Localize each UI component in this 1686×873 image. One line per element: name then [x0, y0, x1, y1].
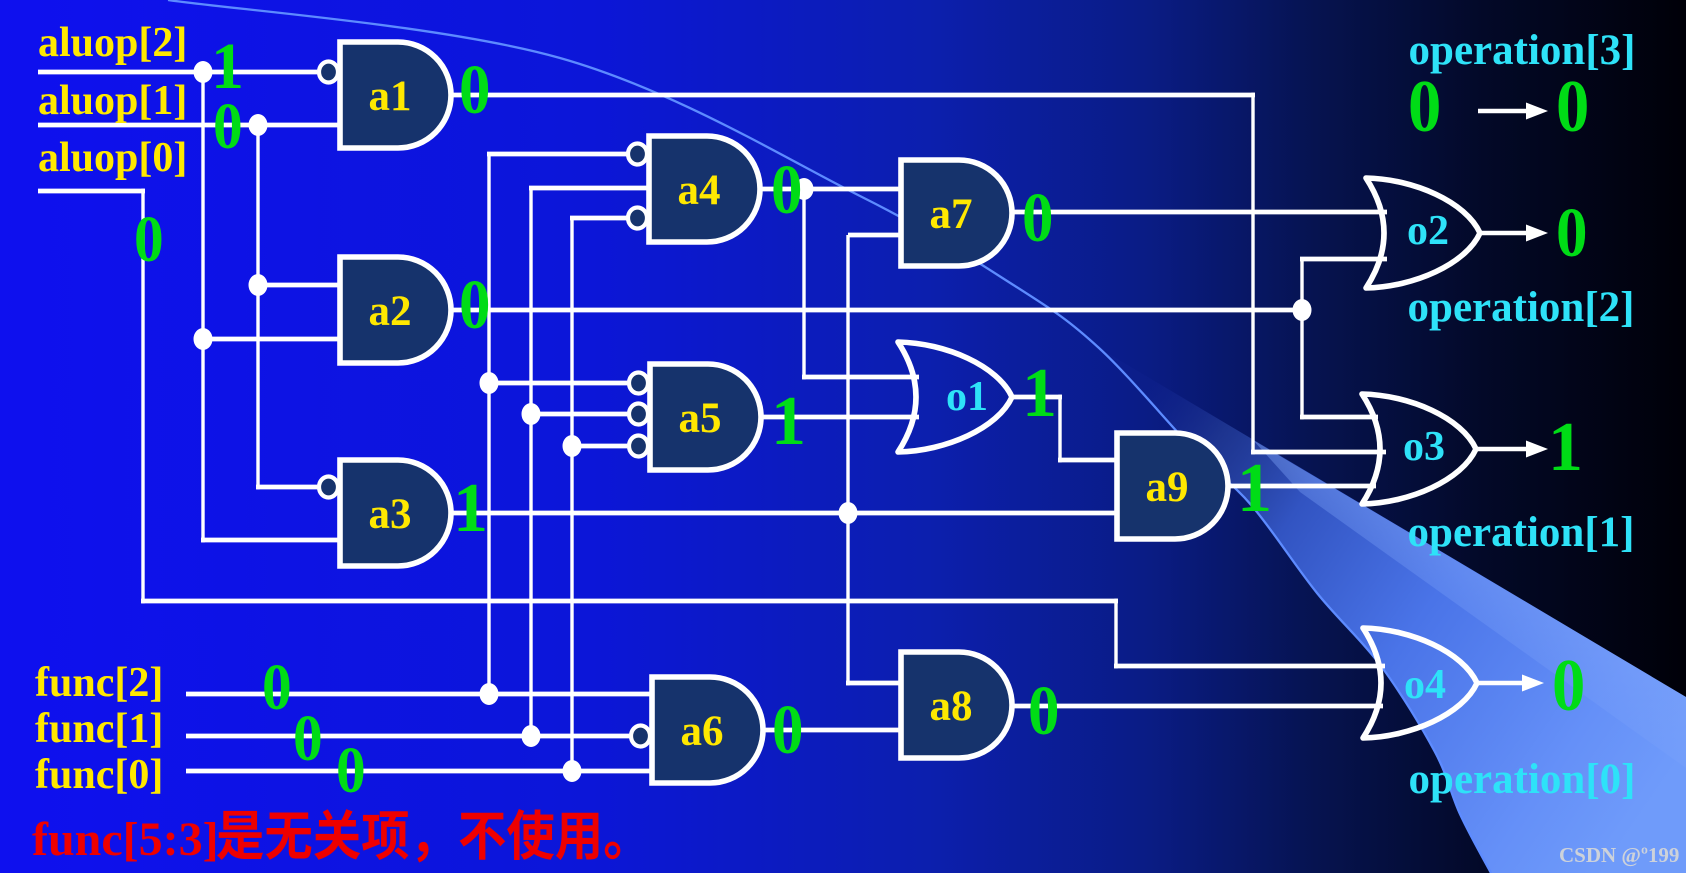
- inverter bubble a1 input: [319, 62, 338, 83]
- svg-text:0: 0: [293, 701, 323, 775]
- inverter bubble a5 input func[2]: [629, 373, 648, 394]
- wire aluop[2] input: [38, 70, 317, 75]
- inverter bubble a3 input: [319, 477, 338, 498]
- and-gate a7: [901, 160, 1012, 266]
- svg-text:1: 1: [453, 470, 488, 547]
- svg-text:0: 0: [459, 267, 491, 344]
- or-gate o3: [1362, 394, 1476, 504]
- output arrow operation[2]: [1480, 225, 1548, 242]
- svg-text:func[1]: func[1]: [35, 706, 163, 752]
- svg-text:1: 1: [1548, 409, 1583, 486]
- svg-text:a7: a7: [930, 191, 973, 238]
- wire func[0] input: [186, 769, 654, 774]
- svg-text:1: 1: [771, 383, 806, 460]
- wire a1 output to o3: [453, 93, 1386, 455]
- wire o1 output to a9: [1012, 395, 1117, 463]
- wire aluop[2] branch to a2: [203, 337, 340, 342]
- svg-text:o3: o3: [1403, 424, 1445, 470]
- junction a4 output node: [795, 178, 814, 200]
- svg-text:aluop[1]: aluop[1]: [38, 78, 187, 124]
- svg-text:0: 0: [771, 152, 803, 229]
- svg-text:operation[2]: operation[2]: [1408, 284, 1635, 331]
- svg-text:0: 0: [459, 52, 491, 129]
- svg-text:0: 0: [1556, 66, 1589, 148]
- and-gate a4: [649, 136, 760, 242]
- wire node to o3: [1300, 310, 1378, 419]
- junction func[0] to a5: [563, 435, 582, 457]
- and-gate a6: [652, 677, 763, 783]
- and-gate a2: [340, 257, 451, 363]
- wire func[1] branch to a5: [531, 412, 627, 417]
- inverter bubble a5 input func[1]: [629, 404, 648, 425]
- svg-text:1: 1: [1022, 355, 1057, 432]
- or-gate o2: [1366, 178, 1480, 288]
- svg-text:func[0]: func[0]: [35, 752, 163, 798]
- svg-text:a3: a3: [369, 491, 412, 538]
- wire a8 output to o4: [1014, 704, 1383, 709]
- wire func[2] riser to a4: [487, 154, 627, 696]
- junction func[2] to a5: [480, 372, 499, 394]
- wire aluop[1] branch to a2: [258, 283, 340, 288]
- svg-text:aluop[0]: aluop[0]: [38, 135, 187, 181]
- svg-text:a1: a1: [369, 73, 412, 120]
- and-gate a1: [340, 42, 451, 148]
- or-gate o1: [898, 342, 1012, 452]
- output arrow operation[3]: [1478, 103, 1548, 120]
- wire func[1] riser to a4: [529, 188, 652, 738]
- output arrow operation[0]: [1477, 675, 1544, 692]
- wire a4 branch to o1: [802, 189, 919, 379]
- inverter bubble a4 input func[2]: [628, 144, 647, 165]
- svg-text:a4: a4: [678, 167, 721, 214]
- wire aluop[2] branch to a2 and a3: [201, 72, 340, 542]
- junction aluop[1] to a2: [249, 274, 268, 296]
- svg-text:0: 0: [1552, 645, 1585, 727]
- inverter bubble a6 input func[1]: [631, 726, 650, 747]
- svg-text:func[5:3]: func[5:3]: [32, 813, 219, 866]
- wire func[1] input: [186, 734, 629, 739]
- junction aluop[2] tap: [194, 61, 213, 83]
- svg-text:0: 0: [1028, 673, 1060, 750]
- svg-text:1: 1: [1237, 450, 1272, 527]
- junction aluop[2] to a2: [194, 328, 213, 350]
- junction func[1] to a5: [522, 403, 541, 425]
- wire a4 output to a7: [760, 187, 901, 192]
- wire node to o2: [1300, 259, 1387, 312]
- inverter bubble a4 input func[0]: [628, 208, 647, 229]
- svg-text:0: 0: [1556, 195, 1588, 272]
- wire a6 output to a8: [762, 728, 901, 733]
- svg-text:0: 0: [336, 733, 366, 807]
- svg-text:0: 0: [262, 650, 292, 724]
- svg-text:aluop[2]: aluop[2]: [38, 20, 187, 66]
- svg-text:operation[3]: operation[3]: [1409, 27, 1636, 74]
- svg-text:0: 0: [1022, 180, 1054, 257]
- svg-text:a5: a5: [679, 395, 722, 442]
- svg-text:CSDN @º199: CSDN @º199: [1559, 843, 1679, 867]
- wire a5 output to o1: [760, 415, 919, 420]
- wire func[2] branch to a5: [489, 381, 627, 386]
- svg-text:0: 0: [772, 692, 804, 769]
- svg-text:0: 0: [134, 202, 164, 276]
- svg-text:o4: o4: [1404, 662, 1446, 708]
- inverter bubble a5 input func[0]: [629, 436, 648, 457]
- wire func[0] branch to a5: [572, 444, 627, 449]
- svg-text:func[2]: func[2]: [35, 660, 163, 706]
- wire a7 output to o2: [1014, 210, 1387, 215]
- wire a3 output to a9: [453, 511, 1117, 516]
- svg-text:a2: a2: [369, 288, 412, 335]
- wire a3 riser: [846, 235, 901, 685]
- and-gate a9: [1117, 433, 1228, 539]
- wire a9 output to o3: [1230, 484, 1376, 489]
- wire func[0] riser to a4: [570, 218, 627, 773]
- junction a3 output node: [839, 502, 858, 524]
- junction func[0] tap: [563, 760, 582, 782]
- junction func[1] tap: [522, 725, 541, 747]
- svg-text:0: 0: [1408, 66, 1441, 148]
- and-gate a5: [650, 364, 761, 470]
- junction aluop[1] tap: [249, 114, 268, 136]
- svg-text:0: 0: [213, 89, 243, 163]
- svg-text:a8: a8: [930, 683, 973, 730]
- note text (red) func[5:3]是无关项，不使用。: [32, 809, 620, 866]
- junction func[2] tap: [480, 683, 499, 705]
- svg-text:a9: a9: [1146, 464, 1189, 511]
- wire a2 output to node: [453, 308, 1302, 313]
- svg-text:operation[0]: operation[0]: [1409, 756, 1636, 803]
- and-gate a8: [901, 652, 1012, 758]
- wire a3 branch to a7 and a8: [848, 233, 901, 238]
- wire func[2] input: [186, 692, 654, 697]
- wire aluop[0] input to o4: [38, 189, 1385, 669]
- junction a2 output node: [1293, 299, 1312, 321]
- svg-text:operation[1]: operation[1]: [1408, 509, 1635, 556]
- svg-text:a6: a6: [681, 708, 724, 755]
- wire aluop[1] input: [38, 123, 340, 128]
- svg-text:o2: o2: [1407, 208, 1449, 254]
- svg-text:o1: o1: [946, 374, 988, 420]
- or-gate o4: [1363, 628, 1477, 738]
- and-gate a3: [340, 460, 451, 566]
- wire aluop[1] branch to a2 and a3: [256, 125, 317, 489]
- output arrow operation[1]: [1476, 441, 1548, 458]
